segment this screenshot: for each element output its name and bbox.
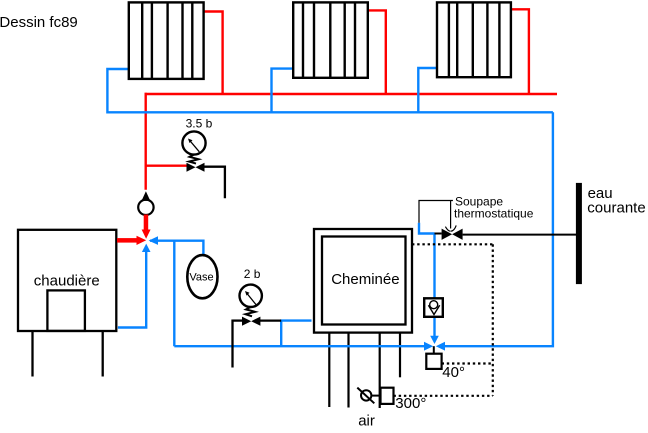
arrowhead blue pointing left into junction — [149, 236, 158, 245]
svg-text:2 b: 2 b — [244, 267, 261, 281]
outlet box 40 — [426, 354, 441, 369]
air damper — [357, 388, 381, 404]
wire blue junction to expansion vessel — [150, 241, 203, 255]
wire red supply from radiator R3 — [511, 9, 529, 94]
chimney Cheminee body — [314, 229, 412, 333]
thermostatic valve (soupape) — [442, 229, 463, 240]
capillary dotted line from 300 box — [394, 395, 493, 397]
arrowhead blue pointing right at mixing point — [424, 342, 433, 351]
wire blue return radiator R2 — [272, 69, 294, 113]
wire black cold water pipe — [463, 234, 576, 236]
wire blue return bottom left arm — [174, 345, 426, 347]
svg-text:Dessin fc89: Dessin fc89 — [0, 14, 78, 31]
wire red supply bus — [145, 93, 557, 95]
thick red arrow down from pump into junction — [142, 215, 151, 239]
spring of relief valve V2 — [246, 307, 256, 316]
wire blue sensor drop upper — [433, 234, 435, 300]
pressure gauge G2 — [240, 285, 262, 307]
wire red branch to safety valve 3.5b — [146, 164, 187, 166]
wire black drain from safety valve V1 — [205, 167, 225, 199]
pressure gauge G1 — [182, 131, 205, 154]
wire blue right downcomer to mixing point — [440, 112, 553, 346]
arrowhead blue pointing up into junction — [142, 244, 151, 252]
wire red supply from radiator R2 — [368, 10, 386, 94]
wire red main drop to pump — [144, 93, 146, 190]
svg-text:Cheminée: Cheminée — [331, 271, 399, 288]
wire black drain drop of relief valve — [231, 320, 233, 368]
svg-text:Vase: Vase — [189, 272, 213, 284]
thermo sensor S1 — [424, 298, 443, 317]
wire blue return radiator R1 and return bus — [107, 69, 553, 112]
chimney flue legs — [329, 333, 400, 408]
wire blue relief valve circuit — [281, 321, 311, 347]
wire black relief pipe left — [233, 319, 244, 321]
svg-text:courante: courante — [587, 200, 645, 217]
wire blue thermostatic valve inlet — [419, 223, 435, 234]
capillary dotted line from 40 box — [442, 362, 493, 364]
pump P1 — [138, 191, 153, 215]
thick red arrow right from boiler into junction — [117, 236, 146, 245]
arrowhead blue pointing down at mixing point — [430, 336, 439, 344]
wire black stub to thermostatic valve — [435, 233, 442, 235]
expansion vessel Vase — [187, 255, 217, 298]
svg-text:40°: 40° — [442, 364, 465, 381]
wire blue return radiator R3 — [418, 68, 437, 112]
svg-text:thermostatique: thermostatique — [454, 206, 534, 220]
wire red supply from radiator R1 — [204, 12, 223, 95]
capillary dotted line top — [412, 243, 493, 245]
wire blue boiler return riser — [118, 247, 146, 328]
water main bar eau courante — [576, 183, 582, 284]
radiator R2 — [293, 2, 368, 77]
relief valve V2 — [242, 317, 260, 326]
svg-text:air: air — [358, 412, 375, 429]
wire black relief pipe right — [260, 319, 282, 321]
arrowhead blue pointing left at mixing point — [436, 342, 445, 351]
wire black stub mixing point to 40 box — [433, 346, 435, 354]
capillary dotted line right vertical — [492, 244, 494, 395]
boiler chaudiere — [18, 230, 116, 377]
svg-text:300°: 300° — [395, 395, 426, 412]
radiator R3 — [437, 2, 511, 77]
svg-text:3.5 b: 3.5 b — [186, 116, 213, 130]
svg-text:chaudière: chaudière — [34, 273, 100, 290]
wire blue drop from junction line to return bus — [173, 241, 175, 347]
radiator R1 — [129, 2, 204, 79]
spring of safety valve V1 — [189, 155, 199, 164]
wire blue sensor drop lower — [433, 317, 435, 338]
callout line Soupape thermostatique — [419, 201, 456, 232]
sensor box 300 — [381, 388, 394, 404]
safety valve V1 — [187, 163, 205, 172]
